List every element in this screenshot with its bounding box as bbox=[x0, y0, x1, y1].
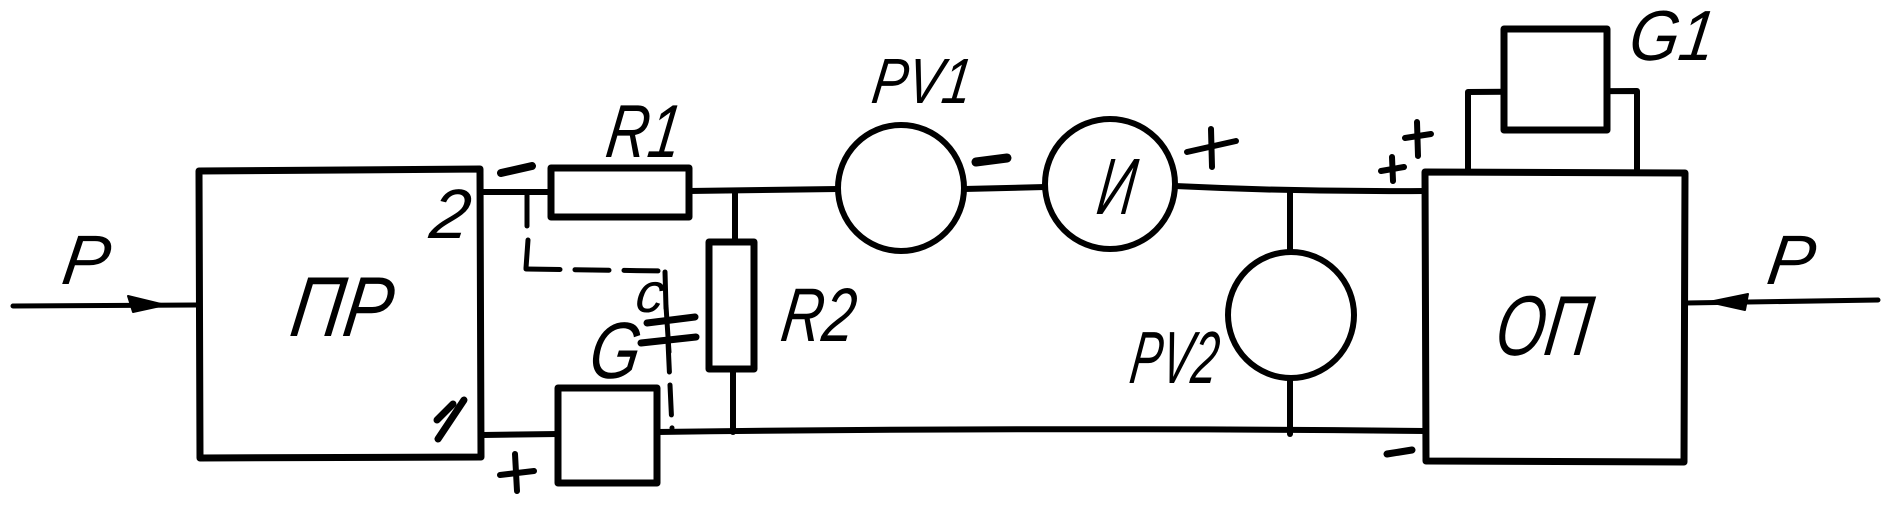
svg-text:R2: R2 bbox=[777, 273, 862, 358]
svg-text:P: P bbox=[1763, 220, 1821, 299]
svg-text:R1: R1 bbox=[602, 89, 688, 173]
svg-text:ПР: ПР bbox=[285, 260, 399, 355]
svg-text:G1: G1 bbox=[1625, 0, 1721, 76]
svg-text:PV1: PV1 bbox=[868, 45, 977, 117]
svg-text:P: P bbox=[58, 220, 116, 299]
svg-text:2: 2 bbox=[425, 174, 476, 253]
svg-text:ОП: ОП bbox=[1490, 279, 1598, 374]
svg-text:PV2: PV2 bbox=[1126, 316, 1225, 399]
